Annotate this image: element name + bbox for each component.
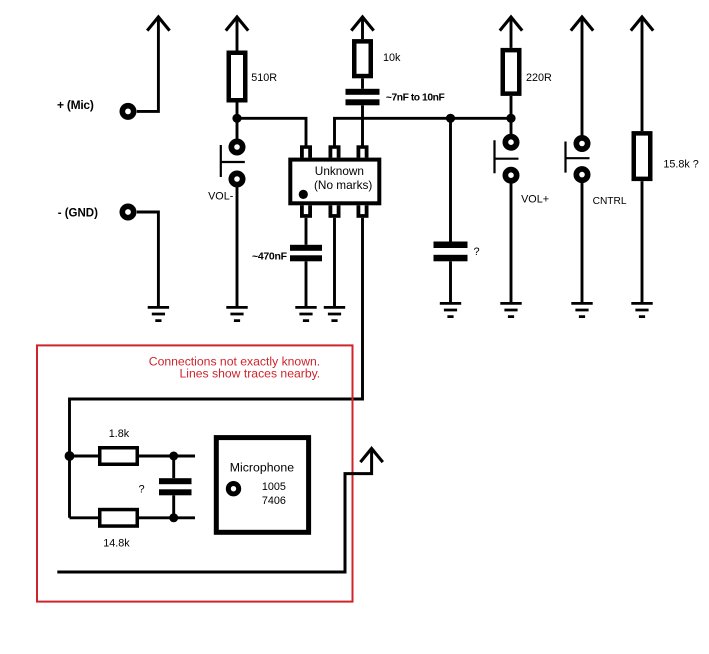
ground (CNTRL) <box>571 303 592 316</box>
switch CNTRL <box>566 138 627 207</box>
power arrow (510R rail) <box>226 17 248 31</box>
wire pin 4 to capacitor 470nF <box>305 218 308 245</box>
wire arrow to R 15.8k <box>641 17 644 132</box>
IC U1 Unknown (No marks) <box>288 158 381 206</box>
switch VOL+ <box>495 137 550 206</box>
pin 4 (bottom) <box>300 205 312 218</box>
svg-text:(No marks): (No marks) <box>314 178 372 192</box>
wire 15.8k to ground <box>641 181 644 303</box>
svg-text:~470nF: ~470nF <box>252 251 288 263</box>
wire ? capacitor to ground <box>449 261 452 303</box>
svg-text:1005: 1005 <box>262 481 286 493</box>
pin 3 (top) <box>357 145 369 158</box>
svg-text:15.8k ?: 15.8k ? <box>663 158 698 170</box>
ground (pin 5) <box>324 307 345 320</box>
pin 2 (top) <box>329 145 341 158</box>
capacitor ~470nF <box>252 245 322 263</box>
wire bus to chip pin 1 <box>237 118 306 145</box>
node junction (cap top) <box>169 452 178 461</box>
svg-text:VOL+: VOL+ <box>521 194 549 206</box>
wire 510R to VOL- switch <box>236 103 239 139</box>
capacitor ? (divider) <box>139 478 192 495</box>
svg-text:510R: 510R <box>251 72 277 84</box>
resistor 14.8k <box>98 508 139 550</box>
node junction (? cap tap) <box>446 114 455 123</box>
wire cap bottom link <box>172 495 175 518</box>
svg-text:14.8k: 14.8k <box>103 538 130 550</box>
wire arrow to R 510R <box>236 17 239 51</box>
node junction (cap bottom) <box>169 513 178 522</box>
resistor 1.8k <box>98 428 139 466</box>
svg-text:- (GND): - (GND) <box>58 207 98 219</box>
wire R 14.8k to bottom node <box>139 516 195 519</box>
ground (15.8k) <box>631 303 652 316</box>
wire VOL- to ground <box>236 187 239 307</box>
power arrow (CNTRL rail) <box>571 17 593 31</box>
svg-text:VOL-: VOL- <box>208 191 234 203</box>
wire trace from pin 6 into mic module area <box>70 218 363 518</box>
power arrow (mic rail) <box>147 17 169 31</box>
svg-text:?: ? <box>139 484 145 496</box>
svg-text:+ (Mic): + (Mic) <box>57 98 94 112</box>
annotation box (red) <box>37 345 353 601</box>
node junction (divider input) <box>65 451 75 461</box>
connector + (Mic) <box>57 98 134 117</box>
node junction (220R output) <box>506 114 515 123</box>
wire ? capacitor tap <box>449 118 452 241</box>
connector - (GND) <box>58 206 134 219</box>
capacitor ? <box>434 242 480 262</box>
ground (VOL+) <box>500 303 521 316</box>
microphone module <box>214 435 311 535</box>
svg-text:CNTRL: CNTRL <box>593 196 627 207</box>
svg-text:~7nF to 10nF: ~7nF to 10nF <box>386 93 445 104</box>
capacitor ~7nF to 10nF <box>346 89 445 106</box>
svg-text:1.8k: 1.8k <box>109 428 130 440</box>
resistor 510R <box>227 51 278 103</box>
svg-text:10k: 10k <box>383 52 401 64</box>
wire arrow to R 220R <box>510 17 513 48</box>
ground (470nF) <box>295 307 316 320</box>
wire bottom trace with arrow <box>57 449 371 572</box>
resistor 15.8k? <box>632 131 699 181</box>
wire R 1.8k to top node <box>139 455 195 458</box>
power arrow (15.8k rail) <box>631 17 653 31</box>
wire capacitor 470nF to ground <box>305 261 308 307</box>
signal arrow (trace) <box>360 449 382 463</box>
power arrow (10k rail) <box>351 17 373 31</box>
wire cap top link <box>172 456 175 478</box>
ground (mic return) <box>148 307 169 320</box>
pin 6 (bottom) <box>357 205 369 218</box>
resistor 220R <box>501 48 553 96</box>
wire CNTRL to ground <box>581 183 584 304</box>
svg-text:Unknown: Unknown <box>315 164 364 178</box>
wire arrow to CNTRL switch <box>581 17 584 136</box>
wire node to R 1.8k <box>70 455 99 458</box>
wire pin 5 to ground <box>333 218 336 308</box>
ground (VOL-) <box>226 307 247 320</box>
node junction (510R output) <box>232 114 241 123</box>
svg-text:7406: 7406 <box>262 495 286 507</box>
resistor 10k <box>352 39 401 78</box>
ground (? cap) <box>440 303 461 316</box>
wire node to R 14.8k <box>70 516 99 519</box>
power arrow (220R rail) <box>500 17 522 31</box>
wire arrow to R 10k <box>361 17 364 40</box>
wire capacitor through bus to chip pin 3 <box>361 105 364 145</box>
wire 10k to capacitor <box>361 78 364 89</box>
svg-text:Lines show traces nearby.: Lines show traces nearby. <box>180 366 321 380</box>
wire VOL+ to ground <box>510 183 513 303</box>
svg-text:220R: 220R <box>526 72 552 84</box>
pin 1 (top) <box>300 145 312 158</box>
svg-text:Microphone: Microphone <box>230 461 294 475</box>
wire 220R to VOL+ switch <box>510 96 513 134</box>
wire bus (pin 2 to VOL+ junction) <box>335 118 512 145</box>
wire gnd lead <box>137 212 159 307</box>
svg-text:?: ? <box>474 246 480 258</box>
pin 5 (bottom) <box>329 205 341 218</box>
wire mic lead <box>137 18 159 111</box>
switch VOL- <box>208 141 245 202</box>
